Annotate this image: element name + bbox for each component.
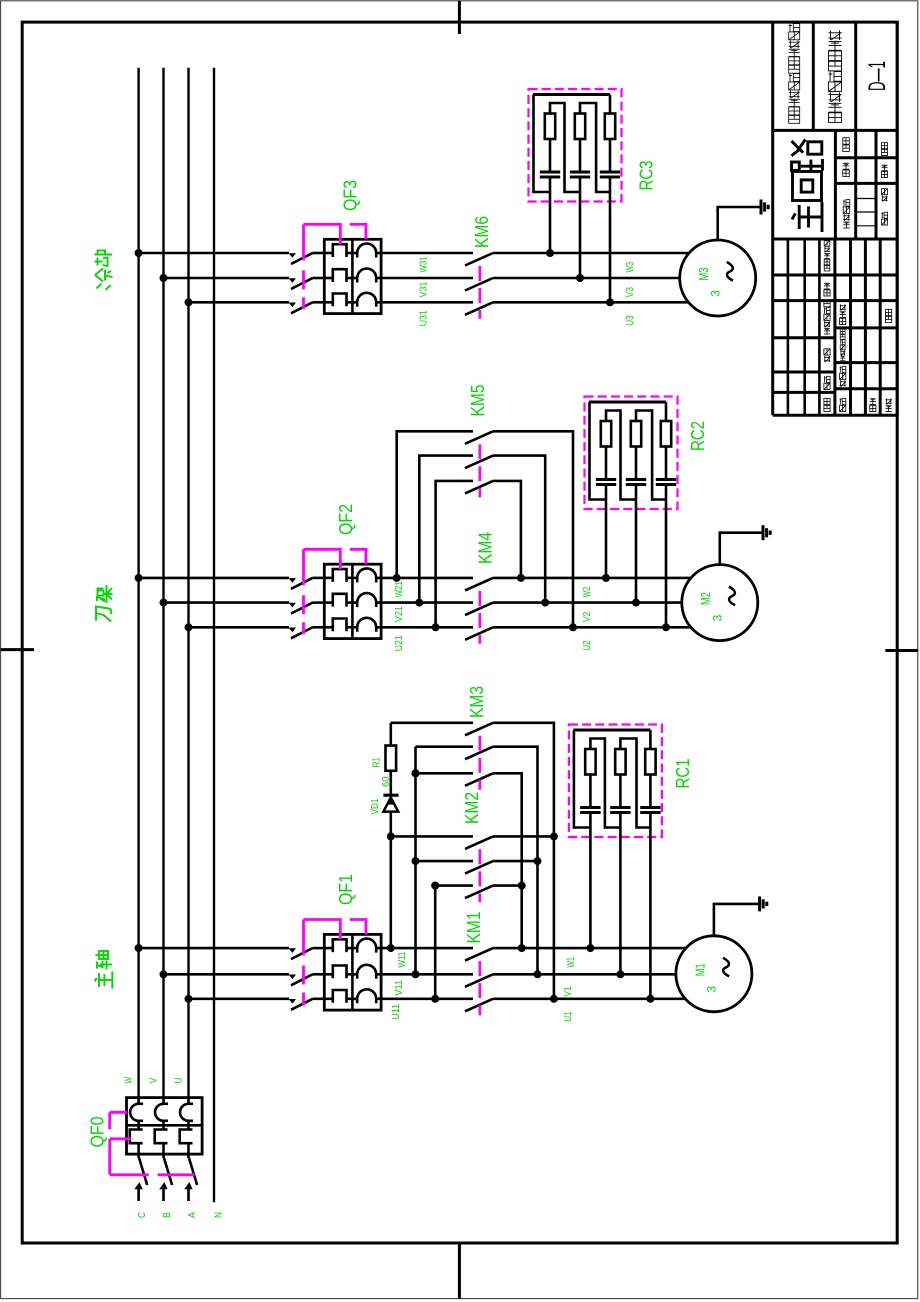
wire bus L1 [137,68,139,1098]
contactor KM4 [465,578,493,591]
svg-text:KM6: KM6 [472,216,492,248]
svg-text:3: 3 [710,614,724,621]
svg-text:V2: V2 [582,611,593,622]
svg-text:W11: W11 [397,951,408,967]
RC snubber RC1 [569,725,662,838]
QF0 magenta linkage [110,1111,127,1114]
title text drawing name [829,113,842,123]
svg-text:V3: V3 [625,287,636,298]
svg-text:RC1: RC1 [673,759,693,789]
circuit breaker QF1 [288,947,291,950]
circuit breaker QF0 [127,1098,203,1155]
svg-text:U31: U31 [419,310,430,326]
wire KM6 to motor M3 [493,252,689,255]
contactor KM1 [465,948,493,961]
svg-text:U11: U11 [391,1003,402,1019]
svg-text:RC3: RC3 [637,161,657,191]
svg-text:U21: U21 [394,635,405,651]
svg-text:3: 3 [708,290,722,297]
node taps group2 [139,577,289,580]
svg-text:W1: W1 [566,957,577,968]
wire QF2 to KM4 [381,577,473,580]
label tool post group [96,585,113,622]
wire KM5 cross returns [493,431,573,627]
wire KM2 rows [391,835,473,838]
svg-text:V1: V1 [563,986,574,997]
wire vertical V3 branch [434,886,437,999]
label spindle group [95,951,113,989]
resistor R1 and diode VD1 branch [389,723,392,746]
wire KM3 rows [391,721,473,724]
svg-text:V21: V21 [394,606,405,622]
svg-text:W2: W2 [582,587,593,598]
wire KM1 outputs to motor M1 [493,947,685,950]
contactor KM5 (reversing) [465,431,493,444]
wire bus N [213,68,215,1203]
svg-text:KM2: KM2 [462,792,482,824]
svg-text:U2: U2 [582,640,593,651]
svg-text:N: N [214,1212,225,1218]
svg-text:C: C [137,1212,148,1218]
svg-text:VD1: VD1 [370,798,381,814]
svg-text:QF3: QF3 [341,180,361,211]
svg-text:B: B [162,1212,173,1218]
circuit breaker QF3 [288,252,291,255]
svg-text:U1: U1 [563,1011,574,1022]
svg-text:U3: U3 [625,315,636,326]
wire vertical V2 branch [414,747,417,975]
label cooling group [95,251,113,291]
contactor KM3 (braking) [465,723,493,736]
RC snubber RC2 [585,397,678,510]
svg-text:W21: W21 [394,581,405,597]
title small labels band C [824,265,830,271]
title block frame [771,22,774,415]
svg-text:QF2: QF2 [336,504,356,535]
svg-text:M2: M2 [698,592,713,605]
svg-text:RC2: RC2 [688,421,708,451]
RC snubber RC3 [529,89,622,202]
contactor KM6 [465,253,493,266]
svg-text:KM5: KM5 [468,385,488,417]
wire KM4 outputs [493,577,691,580]
wire branches up to KM5 [397,431,473,578]
svg-text:W: W [124,1077,135,1084]
title revision table [787,239,790,415]
svg-text:60: 60 [381,776,392,787]
svg-text:R1: R1 [372,757,383,768]
svg-text:W31: W31 [419,256,430,272]
svg-text:D—1: D—1 [864,61,891,91]
svg-text:A: A [187,1212,198,1218]
wire bus L3 [187,68,189,1098]
svg-text:KM1: KM1 [464,912,484,944]
svg-text:V: V [149,1077,160,1083]
circuit breaker QF2 [288,577,291,580]
title text main circuit [792,140,823,233]
svg-text:U: U [174,1078,185,1084]
svg-text:KM3: KM3 [467,686,487,718]
svg-text:QF1: QF1 [336,874,356,905]
svg-text:QF0: QF0 [88,1117,108,1148]
node taps group3 [139,252,289,255]
motor M2 with ground [682,565,758,641]
wire QF1 to KM1 [381,947,473,950]
svg-text:3: 3 [705,986,719,993]
motor M3 with ground [680,240,756,316]
wire bus L2 [162,68,164,1098]
title text company [789,115,800,123]
motor M1 with ground [676,936,752,1012]
node taps group1 [139,947,289,950]
svg-text:KM4: KM4 [476,532,496,564]
svg-text:M1: M1 [692,963,707,976]
wire QF3 to KM6 [381,252,473,255]
title small labels band B [843,145,850,152]
contactor KM2 (reversing) [465,836,493,849]
svg-text:V31: V31 [419,281,430,297]
svg-text:V11: V11 [394,979,405,995]
svg-text:M3: M3 [696,268,711,281]
svg-text:W3: W3 [625,262,636,273]
